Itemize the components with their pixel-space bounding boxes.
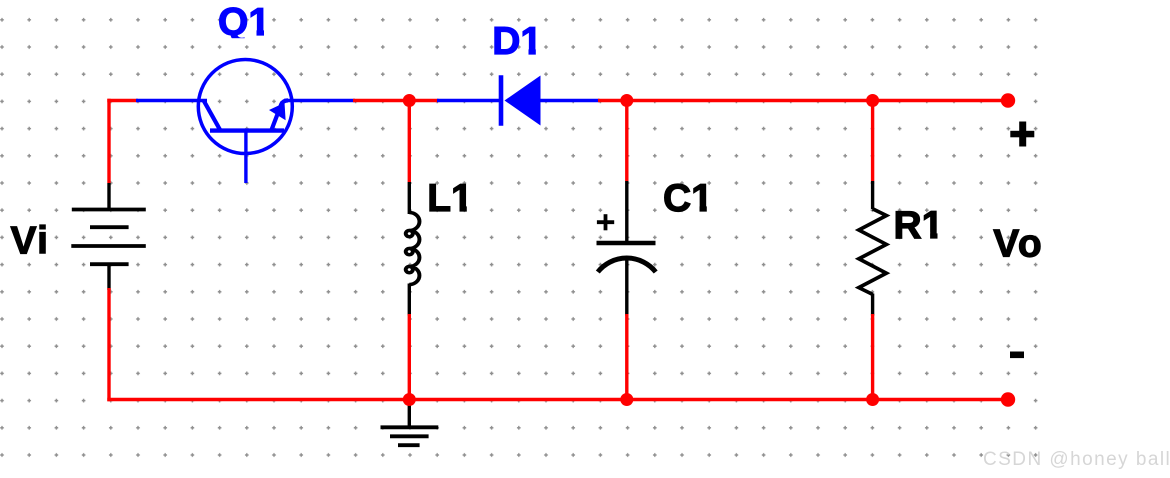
wire L1 branch red top (408, 99, 411, 182)
wire top rail blue segment to Q1 emitter (136, 99, 207, 102)
wire top rail red segment through node L1 (353, 99, 439, 102)
wire top rail blue segment from D1 anode (540, 99, 600, 102)
wire L1 branch red bottom (408, 314, 411, 401)
capacitor C1 plus sign (597, 214, 614, 230)
wire top rail blue segment from Q1 collector (284, 99, 355, 102)
wire left vertical top (battery positive lead, red) (107, 99, 110, 183)
wire L1 bottom pin black (408, 284, 411, 316)
ground (381, 400, 439, 446)
wire C1 bottom pin black (625, 258, 628, 316)
inductor L1 (406, 213, 420, 285)
wire C1 top pin black (625, 181, 628, 243)
label glyph tweak: remove serif feet from digit 1 (Arial-style) (227, 30, 945, 240)
resistor R1 (859, 209, 887, 295)
svg-text:Vo: Vo (993, 223, 1043, 266)
transistor Q1 (198, 60, 292, 184)
transistor Q1 emitter arrow (269, 103, 286, 120)
label output plus (1010, 122, 1034, 147)
diode D1 (499, 75, 504, 126)
node junction bottom ground (403, 393, 416, 406)
node terminal output - (1001, 392, 1015, 406)
wire R1 bottom pin black (871, 294, 874, 316)
node junction top R1 (866, 94, 879, 107)
wire top rail blue segment to D1 cathode (437, 99, 500, 102)
label output minus (1010, 352, 1024, 359)
wire L1 top pin black (408, 182, 411, 214)
svg-text:D1: D1 (492, 20, 542, 63)
node junction bottom R1 (866, 393, 879, 406)
wire C1 branch red bottom (625, 314, 628, 401)
svg-text:C1: C1 (663, 177, 713, 220)
wire R1 branch red top (871, 99, 874, 181)
wire top rail red segment to output + (598, 99, 1008, 102)
svg-text:Vi: Vi (11, 220, 50, 263)
capacitor C1 (597, 241, 656, 246)
node junction bottom C1 (620, 393, 633, 406)
wire top rail red segment 1 (107, 99, 138, 102)
svg-text:L1: L1 (427, 177, 473, 220)
wire left vertical bottom (red) (107, 288, 110, 401)
svg-text:CSDN @honey ball: CSDN @honey ball (983, 449, 1170, 470)
wire R1 branch red bottom (871, 314, 874, 401)
svg-text:R1: R1 (894, 204, 944, 247)
wire battery top pin (black) (107, 183, 110, 210)
battery Vi (71, 210, 146, 265)
svg-text:Q1: Q1 (218, 1, 270, 44)
node terminal output + (1001, 93, 1015, 107)
wire bottom rail (red) (107, 398, 1008, 401)
wire battery bottom pin (black) (107, 264, 110, 290)
node junction top L1 (403, 94, 416, 107)
wire R1 top pin black (871, 181, 874, 209)
node junction top C1 (620, 94, 633, 107)
wire C1 branch red top (625, 99, 628, 181)
